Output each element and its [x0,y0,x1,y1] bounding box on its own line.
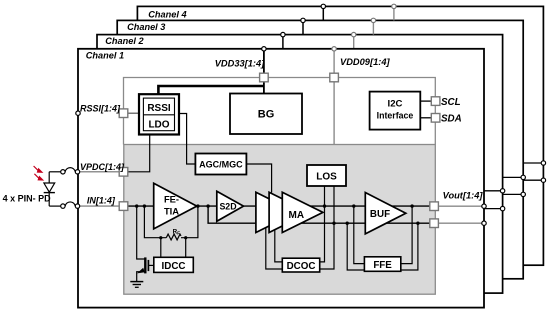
transistor Q1 (NMOS) [137,206,154,281]
wire RSSI box to AGC [179,114,195,165]
node circles VDD33 [262,4,326,51]
wire IDCC sense left [160,238,162,258]
svg-text:RSSI[1:4]: RSSI[1:4] [80,104,121,114]
wire FFE left outer [347,223,364,270]
amplifier S2D [217,191,244,221]
svg-text:FFE: FFE [373,260,392,271]
wire LOS to rail to DCOC (outer) [320,186,334,269]
card Chanel 4 [137,6,543,265]
node circles Vout edges [482,161,546,226]
svg-text:4 x PIN- PD: 4 x PIN- PD [3,194,52,204]
pad SDA [431,114,440,123]
wire FFE left inner [354,206,365,264]
wire main signal rail (top) [128,205,434,207]
svg-text:FE-: FE- [164,194,179,205]
wire VDD09 line channel 1 [333,49,335,145]
svg-text:I2C: I2C [388,99,403,110]
card Chanel 3 [117,20,523,278]
wire Vout stubs channel 2 [484,191,503,209]
pad RSSI [119,109,128,118]
svg-text:IN[1:4]: IN[1:4] [87,196,116,206]
pad Vout+ [430,202,439,211]
wire differential rail (bottom) [208,206,434,223]
card Chanel 1 [78,49,484,308]
svg-text:AGC/MGC: AGC/MGC [199,160,243,170]
wire TIA feedback right [181,206,198,238]
amplifier BUF [365,193,406,234]
op-amp FE-TIA [154,183,197,229]
svg-text:VDD33[1:4]: VDD33[1:4] [215,59,266,69]
wire I2C SCL lead [420,100,431,102]
wire DCOC left outer [266,206,283,269]
svg-text:IDCC: IDCC [162,261,186,272]
box BG [230,94,302,135]
svg-text:Chanel 1: Chanel 1 [86,50,124,60]
svg-text:SCL: SCL [441,97,461,108]
pad IN [119,202,128,211]
light arrows [34,166,43,180]
box DCOC [282,258,319,272]
box RSSI/LDO [139,94,179,134]
svg-text:LDO: LDO [148,119,169,130]
svg-text:S2D: S2D [219,202,236,212]
svg-text:VPDC[1:4]: VPDC[1:4] [80,162,125,172]
photodiode D1 [44,183,55,192]
node circle RSSI edge [76,111,80,115]
svg-text:LOS: LOS [316,171,337,182]
svg-text:TIA: TIA [164,205,179,216]
wire IDCC sense right [185,238,187,258]
pad VDD09 [330,73,339,82]
box LOS [307,165,346,186]
wire IN pad lead [79,205,120,207]
svg-text:BUF: BUF [370,209,390,220]
box FFE [364,257,400,272]
wire VDD33 stub channel 2 [282,35,284,49]
wire TIA feedback left [144,206,166,238]
node circles VDD09 [332,4,396,51]
svg-text:Interface: Interface [377,110,414,120]
pad Vout- [430,219,439,228]
svg-text:SDA: SDA [441,114,462,125]
wire VDD33 line channel 1 [263,49,265,94]
box I2C Interface [370,92,421,130]
junction dots [135,204,420,239]
wire FFE right inner [401,206,412,264]
wire Vout rails outside region [434,206,484,223]
amplifier MA (3 stages) [256,192,323,232]
pad SCL [431,97,440,106]
svg-text:Vout[1:4]: Vout[1:4] [443,190,484,200]
svg-text:Chanel 2: Chanel 2 [105,36,144,46]
wire VDD33 stub channel 3 [302,20,304,34]
svg-text:RSSI: RSSI [147,103,171,114]
pad VDD33 [260,73,269,82]
svg-text:DCOC: DCOC [287,261,316,272]
wire Vout stubs channel 3 [503,177,524,194]
wire AGC to MA [246,164,271,193]
wire LDO supply (thick) [158,86,264,94]
svg-text:BG: BG [258,109,275,121]
wire VPDC to LDO [128,135,150,172]
pad VPDC [119,168,128,177]
wire VPDC pad lead [79,171,120,173]
wire VDD33 stub channel 4 [322,6,324,20]
svg-text:MA: MA [289,210,305,221]
wire VDD09 stub channel 2 [353,35,355,49]
ground [130,282,143,288]
gray analog region [124,145,436,295]
wire Vout stubs channel 4 [523,163,543,180]
wire FFE right outer [401,223,418,270]
wire I2C SDA lead [420,117,431,119]
resistor Rf [166,234,181,240]
wire VDD gray rail [124,78,436,145]
box AGC/MGC [195,154,246,175]
wire DCOC left inner [275,223,283,262]
card Chanel 2 [97,35,503,294]
svg-text:Chanel 3: Chanel 3 [127,22,165,32]
wire VDD09 stub channel 3 [372,20,374,34]
svg-text:VDD09[1:4]: VDD09[1:4] [340,57,391,67]
box IDCC [154,257,194,272]
svg-text:Chanel 4: Chanel 4 [148,9,186,19]
wire VDD09 stub channel 4 [393,6,395,20]
photodiode circuit [49,168,75,206]
wire RSSI pad to RSSI box [128,112,139,114]
node circles photodiode connectors [61,170,80,209]
wire LOS to rail to DCOC (inner) [320,186,325,262]
